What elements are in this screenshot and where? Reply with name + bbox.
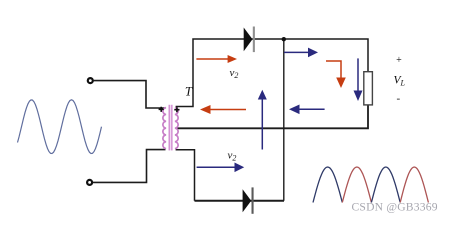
svg-text:-: -: [396, 93, 400, 105]
svg-text:+: +: [396, 55, 402, 66]
svg-text:CSDN @GB3369: CSDN @GB3369: [352, 201, 438, 214]
svg-text:T: T: [185, 84, 193, 99]
